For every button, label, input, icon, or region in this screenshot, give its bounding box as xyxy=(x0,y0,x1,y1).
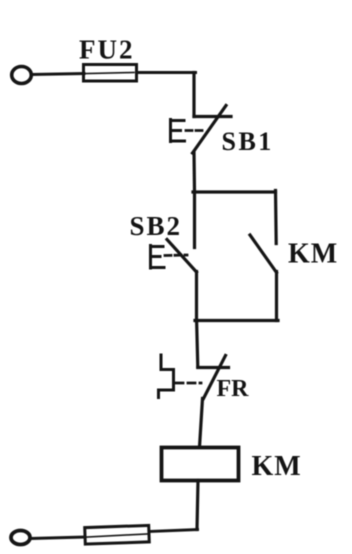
wire FR to coil KM xyxy=(200,399,203,448)
terminal X1 (top-left) xyxy=(12,67,32,84)
pushbutton SB1 fixed contact bar xyxy=(194,115,231,118)
wire node A down to SB2 xyxy=(193,192,196,248)
relay FR movable contact (NC blade) xyxy=(204,356,226,399)
relay FR fixed contact bar xyxy=(198,366,229,369)
svg-text:KM: KM xyxy=(288,239,338,270)
wire top corner down to SB1 xyxy=(192,73,195,117)
wire terminal X1 to fuse FU2 xyxy=(32,74,84,75)
pushbutton SB2 movable contact (NO blade) xyxy=(167,240,197,273)
coil KM xyxy=(162,448,239,481)
svg-text:KM: KM xyxy=(252,451,302,482)
contact KM movable blade (NO) xyxy=(250,235,277,273)
fuse FU (bottom) xyxy=(85,525,150,544)
wire SB1 to node A xyxy=(192,152,196,192)
wire fuse FU to terminal X2 xyxy=(32,537,85,539)
svg-text:SB1: SB1 xyxy=(222,127,274,156)
pushbutton SB1 dashed link xyxy=(186,129,204,132)
wire KM contact down to branch bottom xyxy=(275,272,278,321)
svg-text:SB2: SB2 xyxy=(130,211,183,241)
wire coil KM down to bottom run xyxy=(197,481,198,530)
wire branch right down to KM contact xyxy=(274,191,278,244)
terminal X2 (bottom-left) xyxy=(11,531,30,545)
pushbutton SB1 actuator E xyxy=(171,120,185,142)
pushbutton SB2 actuator E xyxy=(151,246,165,269)
node B branch bottom wire xyxy=(195,319,278,322)
relay FR thermal element xyxy=(159,355,174,398)
wire SB2 to node B xyxy=(195,272,198,322)
wire fuse FU2 to top corner xyxy=(137,71,196,74)
wire node B down to FR xyxy=(197,321,198,368)
fuse FU2 xyxy=(84,65,137,82)
bottom wire corner to fuse FU xyxy=(149,530,198,532)
pushbutton SB2 dashed link xyxy=(165,254,187,257)
svg-text:FR: FR xyxy=(217,376,250,402)
svg-text:FU2: FU2 xyxy=(79,35,135,65)
node A branch top wire xyxy=(193,190,276,193)
pushbutton SB1 movable contact (NC blade) xyxy=(193,106,227,154)
relay FR dashed link xyxy=(176,382,201,385)
